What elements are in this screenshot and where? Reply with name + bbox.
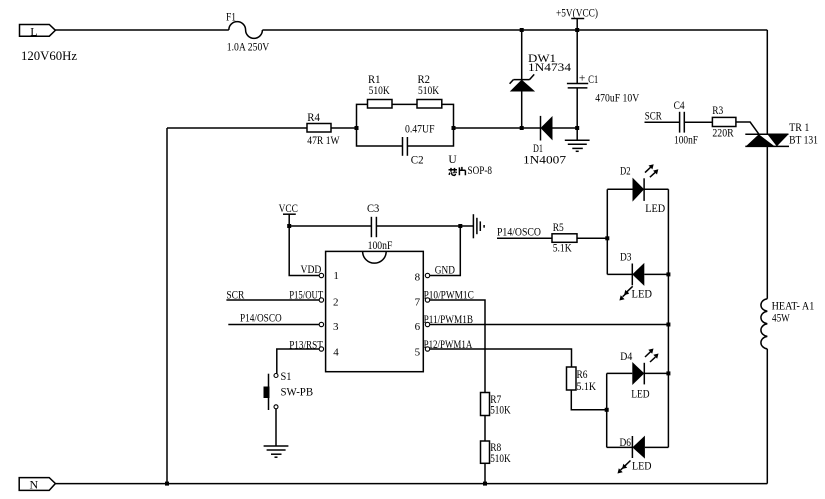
svg-text:L: L (30, 24, 37, 38)
wire DW1 branch top (521, 30, 523, 80)
wire L to fuse (55, 29, 228, 31)
svg-text:1.0A 250V: 1.0A 250V (227, 42, 270, 54)
wire C4 to R3 (684, 121, 712, 123)
ground C1 (565, 140, 590, 151)
switch S1 SW-PB (264, 371, 314, 410)
wire VCC down to VDD pin 1 (289, 226, 319, 276)
zener DW1 1N4734 (510, 53, 572, 92)
wire SCR to pin 2 (226, 299, 319, 301)
wire DW1 branch bottom (521, 92, 523, 129)
svg-text:C4: C4 (674, 100, 685, 112)
wire upper branch left (357, 104, 368, 128)
wire left vertical (166, 128, 168, 484)
svg-text:0.47UF: 0.47UF (405, 123, 435, 135)
capacitor C2 0.47UF (403, 123, 435, 166)
svg-text:SOP-8: SOP-8 (468, 165, 493, 177)
capacitor C3 100nF (367, 203, 392, 252)
svg-text:P15/OUT: P15/OUT (289, 290, 323, 302)
svg-text:R3: R3 (712, 105, 723, 117)
resistor R7 510K (481, 393, 512, 417)
IC U SOP-8 box (326, 251, 424, 371)
wire gate from R3 (736, 122, 759, 134)
svg-text:D6: D6 (620, 437, 632, 449)
wire D3 left (607, 273, 632, 275)
wire lower branch right (407, 128, 453, 146)
wire pin 6 to LED loop (430, 324, 669, 326)
svg-text:3: 3 (333, 321, 339, 333)
junction node top DW1 (520, 28, 524, 32)
svg-text:LED: LED (632, 288, 653, 300)
svg-text:LED: LED (631, 388, 649, 400)
resistor R8 510K (481, 441, 512, 465)
svg-text:R4: R4 (307, 112, 320, 124)
wire D2 right (644, 188, 668, 190)
label chip SOP-8 (449, 165, 493, 177)
svg-text:R2: R2 (418, 74, 431, 86)
wire lower loop left vertical (606, 373, 608, 447)
svg-text:U: U (448, 154, 457, 166)
wire C3 to ground (376, 225, 473, 227)
wire coil to bottom corner (766, 349, 768, 484)
junction R5 node (605, 236, 609, 240)
svg-text:120V60Hz: 120V60Hz (21, 49, 77, 63)
svg-text:8: 8 (415, 272, 421, 284)
wire right vertical top (766, 30, 768, 134)
junction VCC node (287, 224, 291, 228)
svg-text:1N4007: 1N4007 (523, 155, 566, 167)
svg-text:C1: C1 (588, 74, 598, 86)
wire label to R5 (497, 237, 552, 239)
svg-text:F1: F1 (226, 11, 236, 23)
wire C1 to ground (576, 88, 578, 140)
wire upper loop left vertical (606, 189, 608, 274)
connector L (20, 24, 56, 38)
resistor R3 220R (712, 105, 736, 140)
wire pin 8 to gnd net (430, 226, 461, 276)
wire left to R4 (167, 127, 307, 129)
junction bottom R8 (483, 482, 487, 486)
svg-text:47R 1W: 47R 1W (307, 135, 339, 147)
svg-text:2: 2 (333, 297, 339, 309)
wire D6 left (607, 446, 633, 448)
wire R5 to node (577, 237, 607, 239)
wire VCC to C3 (289, 225, 371, 227)
resistor R1 510K (368, 74, 393, 108)
wire lower branch left (357, 128, 403, 146)
svg-text:220R: 220R (712, 128, 734, 140)
junction bottom left vertical (165, 482, 169, 486)
wire fuse to top-right corner (262, 29, 767, 31)
svg-text:R6: R6 (577, 369, 588, 381)
led D2 (620, 164, 665, 215)
power VCC (279, 203, 299, 226)
wire D1 to C1 node (553, 127, 578, 129)
pin 3 (319, 322, 323, 326)
pin 2 (319, 298, 323, 302)
svg-text:D2: D2 (620, 166, 631, 178)
svg-text:D4: D4 (620, 351, 632, 363)
junction GND net (458, 224, 462, 228)
svg-text:VDD: VDD (301, 264, 322, 276)
svg-text:5.1K: 5.1K (553, 242, 573, 254)
svg-text:1: 1 (333, 270, 339, 282)
junction D3 right (666, 272, 670, 276)
svg-text:R1: R1 (368, 74, 381, 86)
svg-text:LED: LED (645, 203, 665, 215)
svg-text:D3: D3 (620, 252, 632, 264)
junction R6 node (605, 408, 609, 412)
wire D3 right (644, 273, 668, 275)
svg-text:470uF 10V: 470uF 10V (595, 93, 640, 105)
pin 4 (319, 347, 323, 351)
svg-text:BT 131: BT 131 (789, 135, 818, 147)
ground C3 rotated (473, 214, 484, 238)
inductor HEAT-A1 45W (761, 299, 815, 349)
wire node to D1 (454, 127, 541, 129)
junction C1 bottom (575, 126, 579, 130)
capacitor C4 100nF (674, 100, 698, 147)
wire D2 left (607, 188, 632, 190)
svg-text:SW-PB: SW-PB (281, 387, 314, 399)
pin 7 (425, 298, 429, 302)
junction node right of RC network (452, 126, 456, 130)
svg-text:45W: 45W (772, 313, 790, 325)
junction DW1 bottom (520, 126, 524, 130)
led D6 (618, 436, 652, 474)
wire pin 7 to R7 (430, 300, 485, 393)
wire upper branch right (442, 104, 454, 128)
pin 1 (319, 273, 323, 277)
connector N (19, 478, 55, 492)
power +5V(VCC) (556, 7, 598, 30)
wire triac to coil (766, 146, 768, 298)
pin 5 (425, 347, 429, 351)
svg-text:LED: LED (632, 461, 652, 473)
led D4 (620, 349, 658, 401)
resistor R4 47R 1W (307, 112, 340, 147)
svg-text:S1: S1 (281, 371, 292, 383)
svg-text:C2: C2 (411, 155, 424, 167)
wire pin 4 to S1 (277, 349, 319, 374)
wire R6 to node (571, 390, 606, 410)
pin 6 (425, 322, 429, 326)
svg-text:1N4734: 1N4734 (528, 62, 571, 74)
junction pin 6 right vertical (666, 323, 670, 327)
svg-text:HEAT- A1: HEAT- A1 (772, 301, 815, 313)
resistor R5 5.1K (552, 222, 577, 255)
wire SCR to C4 (645, 121, 680, 123)
svg-text:6: 6 (415, 321, 421, 333)
wire R8 to bottom rail (484, 463, 486, 483)
svg-text:P14/OSCO: P14/OSCO (497, 227, 541, 239)
svg-text:C3: C3 (367, 203, 380, 215)
wire R4 to node (331, 127, 357, 129)
svg-text:R5: R5 (553, 222, 564, 234)
junction D4 right (666, 371, 670, 375)
svg-text:VCC: VCC (279, 203, 299, 215)
svg-text:+5V(VCC): +5V(VCC) (556, 7, 598, 19)
svg-text:5.1K: 5.1K (577, 381, 597, 393)
svg-text:4: 4 (333, 347, 339, 359)
svg-text:100nF: 100nF (368, 240, 393, 252)
wire pin 3 (228, 324, 319, 326)
wire bottom N rail (55, 483, 767, 485)
svg-text:TR 1: TR 1 (789, 122, 810, 134)
svg-text:P14/OSCO: P14/OSCO (240, 312, 282, 324)
svg-text:510K: 510K (369, 85, 391, 97)
svg-text:510K: 510K (490, 405, 511, 417)
wire R1 to R2 (392, 103, 417, 105)
fuse F1 (226, 11, 270, 53)
wire right loop vertical (667, 189, 669, 447)
triac TR1 BT131 (745, 122, 818, 147)
led D3 (619, 252, 652, 301)
junction node top C1 (575, 28, 579, 32)
wire D6 right (645, 446, 669, 448)
pin 8 (425, 273, 429, 277)
svg-text:510K: 510K (490, 453, 511, 465)
svg-text:7: 7 (415, 297, 421, 309)
svg-text:SCR: SCR (645, 111, 662, 123)
junction node left of RC network (355, 126, 359, 130)
svg-text:5: 5 (415, 347, 421, 359)
diode D1 1N4007 (523, 116, 566, 167)
svg-text:100nF: 100nF (674, 135, 698, 147)
wire D4 left (607, 372, 633, 374)
resistor R2 510K (417, 74, 442, 108)
wire C1 branch top (576, 30, 578, 84)
wire R7 to R8 (484, 416, 486, 442)
svg-text:510K: 510K (418, 85, 440, 97)
svg-text:P13/RST: P13/RST (289, 340, 323, 352)
svg-text:N: N (30, 478, 39, 492)
svg-text:+: + (579, 72, 586, 84)
ground S1 (264, 446, 289, 457)
wire pin 5 to R6 (430, 349, 572, 367)
wire D4 right (644, 372, 668, 374)
resistor R6 5.1K (567, 367, 597, 393)
wire S1 to ground (275, 409, 277, 446)
capacitor C1 470uF 10V (567, 72, 640, 104)
svg-text:D1: D1 (533, 143, 543, 155)
